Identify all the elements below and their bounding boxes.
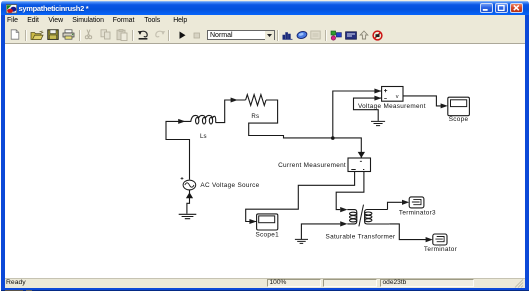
mark below window: [5, 290, 23, 291]
saturable transformer secondary winding: [365, 210, 390, 225]
print: [62, 29, 75, 40]
terminator block: [433, 234, 447, 245]
voltage measurement block U1: [382, 87, 403, 102]
wire AC source to ground G1: [187, 190, 190, 214]
ground G3: [295, 239, 308, 243]
inductor Ls: [191, 115, 216, 122]
disabled icon: [310, 30, 321, 40]
wire CM out2 to transformer primary +: [336, 172, 364, 210]
red cancel icon: [372, 30, 383, 41]
wire junction up to voltage measurement: [333, 91, 382, 138]
wire VM output to Scope: [403, 96, 442, 106]
title icon (Simulink): [6, 4, 17, 14]
debug/keyboard icon: [345, 31, 357, 40]
transformer core line: [359, 205, 364, 227]
current measurement block U2: [348, 158, 371, 172]
window title bar: [1, 0, 529, 15]
arrowhead into inductor: [178, 119, 185, 124]
maximize button: [495, 3, 508, 13]
arrowhead into VM -: [374, 96, 381, 101]
AC voltage source V1: [183, 180, 196, 190]
terminator3 block: [409, 197, 424, 208]
status bar: [5, 278, 525, 288]
wire AC source to inductor: [166, 121, 191, 179]
up arrow icon: [359, 30, 369, 40]
redo (disabled): [153, 30, 166, 40]
wire secondary bottom to Terminator: [389, 224, 426, 240]
menu bar: [5, 15, 525, 28]
wire VM - input from ground G2: [354, 98, 382, 121]
wire inductor to resistor: [216, 100, 246, 123]
saturable transformer primary winding: [347, 210, 357, 224]
node junction: [331, 136, 335, 140]
arrowhead into transformer primary +: [340, 207, 347, 212]
wire Rs to junction: [249, 100, 333, 138]
svg-text:Voltage Measurement: Voltage Measurement: [358, 103, 426, 110]
chart icon: [282, 30, 293, 40]
svg-text:Scope: Scope: [449, 116, 469, 123]
undo: [137, 30, 150, 40]
svg-text:Terminator3: Terminator3: [399, 209, 436, 216]
wire junction to current measurement: [333, 138, 362, 158]
svg-text:Rs: Rs: [251, 113, 259, 120]
arrowhead into Scope: [441, 103, 448, 108]
close button: [510, 3, 523, 13]
toolbar: [5, 28, 525, 45]
arrowhead into Terminator3: [402, 200, 409, 205]
library browser icon (colorful): [330, 30, 342, 41]
open: [30, 30, 44, 41]
svg-text:Scope1: Scope1: [255, 232, 279, 239]
blue disc icon: [296, 30, 308, 40]
Normal combo: [207, 30, 276, 40]
new: [10, 29, 20, 40]
window borders: [1, 15, 5, 287]
svg-text:AC Voltage Source: AC Voltage Source: [200, 182, 259, 189]
scope block: [448, 97, 470, 116]
title text: [19, 4, 89, 13]
paste (disabled): [116, 29, 128, 41]
ground G1: [179, 214, 197, 218]
arrowhead into VM +: [374, 89, 381, 94]
stop (disabled): [193, 32, 201, 39]
play: [178, 31, 187, 40]
save: [47, 29, 59, 40]
minimize button: [480, 3, 493, 13]
svg-text:Terminator: Terminator: [424, 246, 458, 253]
scope1 block: [257, 214, 278, 230]
canvas: [5, 44, 525, 278]
svg-text:v: v: [396, 94, 399, 100]
arrowhead down into CM: [358, 152, 365, 158]
arrowhead up into AC source: [186, 192, 193, 198]
ground G2: [371, 121, 385, 125]
cut (disabled): [84, 29, 93, 40]
svg-text:Current Measurement: Current Measurement: [278, 162, 346, 169]
wire CM out1 to Scope1: [246, 172, 355, 222]
CM pin marks (i, -): [351, 161, 364, 169]
arrowhead into Terminator: [426, 237, 433, 242]
VM pin marks + and -: [384, 89, 387, 98]
svg-text:Saturable Transformer: Saturable Transformer: [326, 234, 396, 241]
arrowhead into Scope1: [249, 219, 256, 224]
arrowhead into resistor: [231, 98, 238, 103]
ground G3 wire to transformer primary -: [301, 224, 340, 239]
arrowhead into transformer primary -: [340, 221, 347, 226]
AC source + polarity mark: [181, 177, 184, 180]
wire secondary top to Terminator3: [388, 202, 402, 209]
copy (disabled): [100, 29, 112, 40]
resistor Rs: [246, 95, 266, 106]
svg-text:Ls: Ls: [200, 133, 207, 140]
